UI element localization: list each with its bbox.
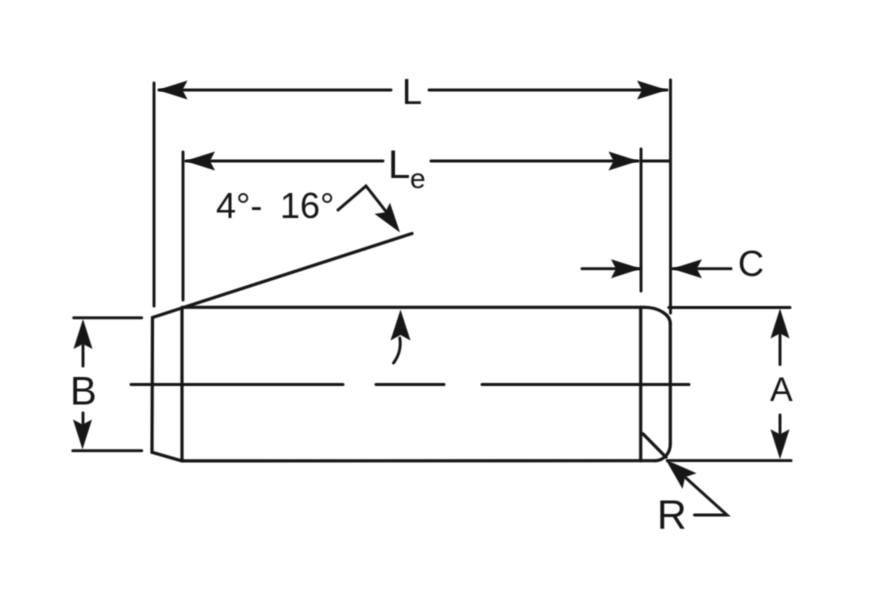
pin bottom-right corner arc	[655, 444, 670, 461]
arrowhead C right	[672, 259, 702, 278]
svg-text:C: C	[738, 243, 764, 284]
pin top-right corner arc	[645, 307, 671, 323]
svg-text:e: e	[410, 163, 426, 194]
dimension B bottom tick	[73, 449, 142, 452]
arrowhead B down	[73, 420, 92, 450]
dimension A bottom tick	[667, 459, 791, 462]
arrowhead Le right	[609, 152, 639, 171]
svg-text:B: B	[70, 370, 97, 414]
svg-text:L: L	[388, 143, 410, 187]
svg-text:L: L	[402, 71, 422, 112]
pin crown tangent line	[639, 307, 642, 460]
dimension A top tick	[669, 306, 790, 309]
arrowhead A up	[771, 309, 790, 339]
arrowhead R leader	[666, 460, 697, 489]
arrowhead B up	[74, 319, 93, 349]
pin body top edge	[183, 306, 645, 309]
dimension A line	[779, 320, 782, 365]
dimension Le extension line right	[640, 149, 643, 291]
pin bottom edge	[182, 459, 655, 462]
pin corner chamfer diagonal	[643, 434, 666, 457]
dimension B top tick	[74, 316, 142, 319]
dimension L extension line right	[669, 80, 672, 313]
svg-text:16°: 16°	[280, 185, 334, 226]
pin taper boundary line	[180, 308, 183, 461]
arrowhead L right	[637, 81, 667, 100]
svg-text:R: R	[657, 492, 687, 538]
dimension C line right tail	[673, 267, 731, 270]
arrowhead curved up	[391, 310, 411, 341]
curved arrow tail	[394, 338, 401, 363]
dimension B line	[82, 330, 85, 366]
dimension Le extension line left	[182, 152, 185, 300]
R leader line	[676, 469, 727, 515]
svg-text:A: A	[770, 371, 793, 409]
arrowhead A down	[771, 429, 790, 459]
dimension Le line	[186, 160, 383, 163]
dimension L extension line left	[153, 83, 156, 306]
pin left end face	[152, 318, 182, 461]
centerline	[131, 383, 689, 386]
arrowhead L left	[158, 81, 188, 100]
arrowhead Le left	[185, 152, 215, 171]
angle leader line	[338, 186, 388, 214]
dimension C line left tail	[582, 267, 639, 270]
arrowhead angle leader	[375, 203, 400, 233]
svg-text:4°-: 4°-	[216, 185, 262, 226]
dimension L line	[159, 89, 391, 92]
arrowhead C left	[611, 259, 641, 278]
taper angle line (continues as top chamfer of pin)	[153, 234, 413, 318]
pin right edge	[669, 324, 672, 445]
